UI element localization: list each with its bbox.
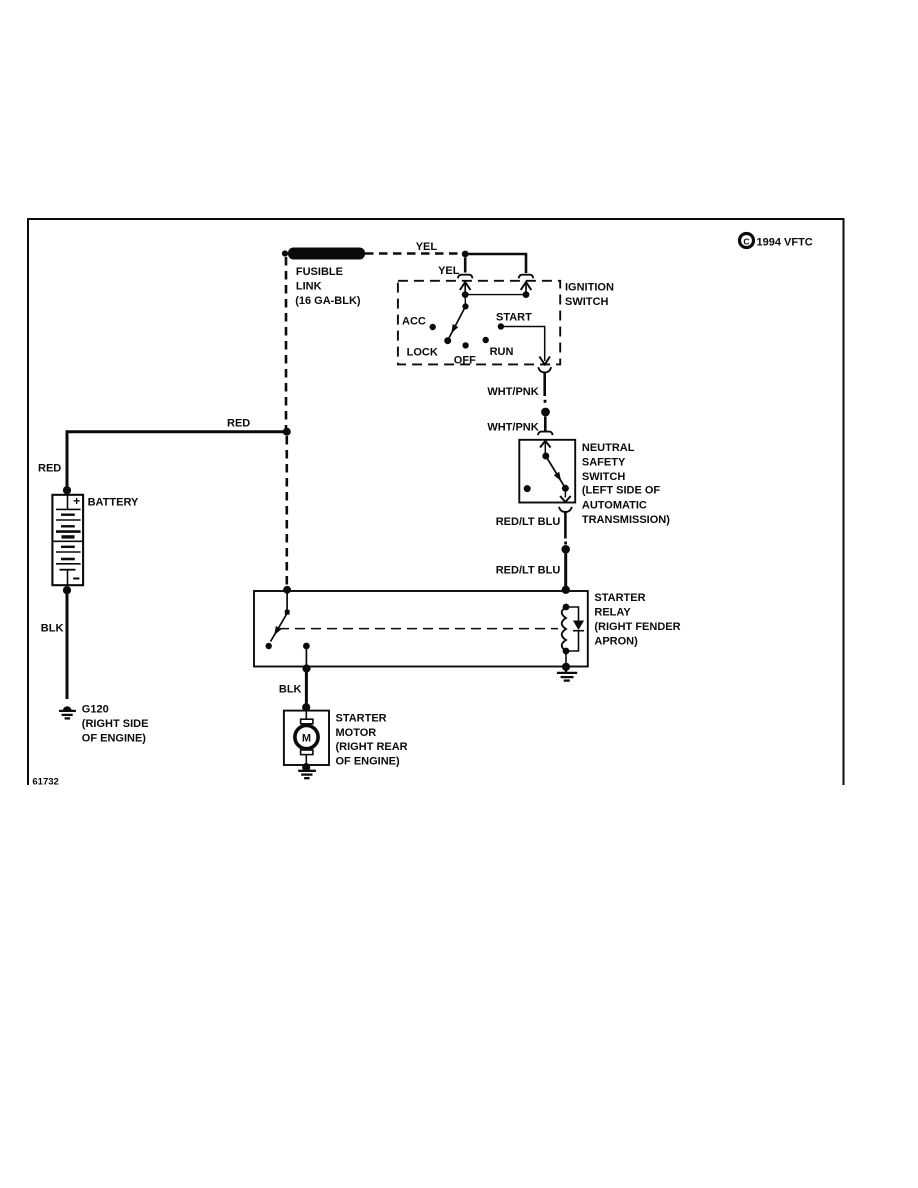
contact ACC: [430, 324, 436, 330]
connector male arrow left pin: [460, 282, 471, 295]
svg-text:RED/LT BLU: RED/LT BLU: [496, 565, 561, 577]
wire WHT/PNK lower: [544, 417, 547, 432]
ignition switch blade (to LOCK): [448, 306, 465, 339]
battery minus sign: [73, 578, 79, 580]
wire relay input stub: [286, 590, 288, 610]
connector male arrow down (START out): [539, 357, 550, 365]
wire relay output down: [305, 646, 307, 668]
node relay coil terminal top: [562, 586, 570, 594]
contact OFF: [462, 342, 468, 348]
node battery negative terminal: [63, 586, 71, 594]
contact NSS left: [524, 485, 531, 492]
neutral safety switch box: [519, 440, 575, 503]
wire dashed feed to relay: [285, 436, 288, 588]
svg-text:M: M: [302, 733, 311, 745]
contact relay output: [303, 643, 310, 650]
svg-text:ACC: ACC: [402, 316, 426, 328]
motor brush top: [301, 719, 313, 724]
wire coil to ground: [565, 651, 567, 667]
svg-text:OF ENGINE): OF ENGINE): [82, 732, 147, 744]
node relay output terminal: [302, 664, 310, 672]
svg-text:(LEFT SIDE OF: (LEFT SIDE OF: [582, 485, 661, 497]
connector female YEL right (cup): [519, 275, 534, 279]
svg-text:RED/LT BLU: RED/LT BLU: [496, 516, 561, 528]
position labels: [402, 312, 532, 367]
wire WHT/PNK upper: [543, 372, 546, 396]
svg-text:FUSIBLE: FUSIBLE: [296, 266, 343, 278]
wire dashed feed from fusible link down: [285, 257, 288, 430]
node pin B: [462, 291, 469, 298]
connector female cup up (below ignition): [538, 367, 551, 372]
contact NSS right: [562, 485, 569, 492]
wire BLK battery to ground: [66, 590, 69, 699]
svg-text:(RIGHT REAR: (RIGHT REAR: [336, 741, 408, 753]
svg-text:YEL: YEL: [416, 241, 438, 253]
svg-text:BLK: BLK: [279, 684, 302, 696]
wire motor stub top: [305, 711, 307, 720]
svg-text:OF ENGINE): OF ENGINE): [336, 756, 401, 768]
node YEL junction: [462, 251, 469, 258]
svg-text:RED: RED: [227, 418, 250, 430]
ignition switch box (dashed): [398, 281, 560, 365]
svg-text:WHT/PNK: WHT/PNK: [487, 386, 538, 398]
label G120: [82, 704, 149, 745]
contact relay open: [266, 643, 272, 649]
node motor ground terminal: [302, 763, 310, 771]
wire pivot stub: [464, 295, 466, 307]
clamp diode D1: [566, 607, 584, 651]
motor brush bottom: [301, 750, 313, 755]
wire BLK relay to motor: [305, 669, 308, 708]
NSS blade: [546, 456, 565, 488]
wire RED/LT BLU upper: [564, 512, 567, 539]
svg-text:BATTERY: BATTERY: [88, 497, 139, 509]
contact RUN: [483, 337, 489, 343]
svg-text:AUTOMATIC: AUTOMATIC: [582, 500, 647, 512]
svg-text:SWITCH: SWITCH: [582, 471, 625, 483]
svg-text:BLK: BLK: [41, 623, 64, 635]
svg-text:G120: G120: [82, 704, 109, 716]
motor M1 armature: [295, 726, 318, 749]
svg-text:LINK: LINK: [296, 281, 322, 293]
wire YEL dashed from fusible link to node: [365, 252, 462, 255]
wire dash break: [544, 400, 547, 403]
svg-text:RELAY: RELAY: [594, 607, 631, 619]
node battery positive terminal: [63, 486, 71, 494]
battery B1: [52, 495, 83, 585]
fusible link label: [295, 266, 361, 307]
svg-text:STARTER: STARTER: [594, 592, 645, 604]
svg-text:OFF: OFF: [454, 355, 476, 367]
label STARTER MOTOR: [336, 712, 408, 767]
svg-text:(RIGHT FENDER: (RIGHT FENDER: [594, 621, 680, 633]
svg-text:YEL: YEL: [438, 265, 460, 277]
node relay switch input: [283, 586, 291, 594]
svg-text:SAFETY: SAFETY: [582, 456, 626, 468]
relay fixed contact (square): [285, 610, 290, 615]
svg-text:START: START: [496, 312, 532, 324]
wire dash break 2: [564, 542, 567, 545]
connector female cup up (below NSS): [559, 507, 572, 512]
svg-text:(RIGHT SIDE: (RIGHT SIDE: [82, 718, 149, 730]
node splice S401: [541, 408, 550, 417]
svg-text:C: C: [743, 237, 749, 247]
connector female cup down (above NSS): [538, 432, 553, 436]
svg-text:WHT/PNK: WHT/PNK: [487, 422, 538, 434]
contact LOCK: [444, 337, 451, 344]
connector female YEL left (cup): [458, 275, 473, 279]
relay blade: [271, 614, 288, 642]
wire NSS out + arrow down: [560, 488, 571, 502]
wire motor stub bottom: [305, 755, 307, 765]
node coil ground terminal: [562, 663, 570, 671]
ground relay: [557, 667, 577, 681]
frame border (decorative): [28, 219, 844, 785]
starter motor box: [284, 711, 329, 765]
starter relay box: [254, 591, 588, 667]
node switch pivot: [462, 303, 468, 309]
ground G120: [59, 706, 76, 718]
svg-text:+: +: [73, 494, 80, 508]
node NSS pivot: [542, 453, 549, 460]
connector male arrow right pin: [521, 282, 532, 295]
svg-text:NEUTRAL: NEUTRAL: [582, 442, 635, 454]
label STARTER RELAY: [594, 592, 680, 647]
svg-text:(16 GA-BLK): (16 GA-BLK): [295, 295, 361, 307]
svg-text:IGNITION: IGNITION: [565, 282, 614, 294]
wire RED/LT BLU lower: [564, 554, 567, 590]
svg-text:RED: RED: [38, 463, 61, 475]
relay coil L1: [562, 604, 570, 655]
svg-text:RUN: RUN: [490, 346, 514, 358]
label NEUTRAL SAFETY SWITCH: [582, 442, 670, 526]
node pin S: [523, 291, 530, 298]
node splice S402: [561, 545, 570, 554]
svg-text:STARTER: STARTER: [336, 712, 387, 724]
svg-text:SWITCH: SWITCH: [565, 296, 608, 308]
label IGNITION SWITCH: [565, 282, 614, 309]
copyright stamp 1994 VFTC: [740, 234, 813, 249]
fusible link FL: [282, 248, 365, 260]
svg-text:APRON): APRON): [594, 635, 638, 647]
node motor terminal: [302, 703, 310, 711]
contact START: [498, 323, 504, 329]
wire pin bus: [465, 294, 526, 296]
wire START output: [501, 327, 545, 362]
node RED junction: [283, 428, 291, 436]
svg-text:MOTOR: MOTOR: [336, 727, 377, 739]
svg-text:1994 VFTC: 1994 VFTC: [757, 237, 813, 249]
svg-text:61732: 61732: [32, 777, 58, 788]
ground starter motor: [298, 771, 316, 778]
wire RED battery to junction: [67, 432, 287, 490]
svg-text:TRANSMISSION): TRANSMISSION): [582, 514, 670, 526]
relay mechanical dashed link: [279, 628, 558, 630]
wire YEL solid to right branch: [465, 254, 526, 273]
svg-text:LOCK: LOCK: [407, 347, 438, 359]
wire stub into connector: [464, 258, 467, 273]
connector male arrow (NSS in): [540, 441, 551, 456]
